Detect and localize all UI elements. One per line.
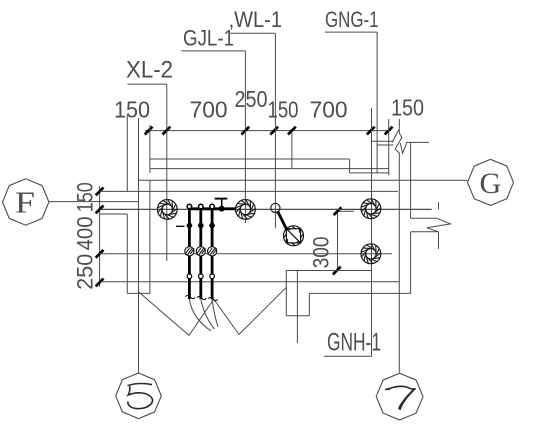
- dim tick h7: [385, 127, 393, 135]
- left wall outer vertical lower: [126, 214, 128, 293]
- right break arrow: [427, 218, 451, 232]
- svg-text:700: 700: [190, 97, 228, 123]
- svg-text:700: 700: [310, 97, 348, 123]
- duct box right vertical: [308, 293, 310, 315]
- junction circle (WL-1): [271, 203, 280, 212]
- tick5 extension: [291, 131, 293, 169]
- svg-text:G: G: [479, 167, 501, 200]
- riser tail 2: [201, 299, 215, 329]
- top-right break vee: [400, 143, 406, 153]
- riser top circle 3: [210, 204, 215, 209]
- riser break squiggle 2: [197, 296, 207, 299]
- leader underline for GNG-1: [325, 31, 377, 33]
- dim tick v1: [96, 188, 104, 196]
- column circle 3: [361, 199, 381, 219]
- top-right wall stub line: [372, 140, 394, 142]
- left wall bottom cap: [127, 292, 150, 294]
- riser small circle 2: [199, 274, 204, 279]
- wall top step vertical: [349, 159, 351, 173]
- left wall inner vertical upper: [149, 125, 151, 173]
- GNH-1 / GNG axis long leader: [371, 108, 373, 356]
- right wall break jog: [395, 133, 402, 153]
- right opening top line: [411, 217, 437, 219]
- right wall inner vertical lower: [410, 232, 412, 294]
- conduit junction dot: [219, 206, 225, 212]
- left wall outer vertical upper: [126, 115, 128, 191]
- left wall connector: [100, 213, 128, 215]
- conduit riser 2: [199, 209, 202, 299]
- left wall inner vertical lower: [149, 181, 151, 294]
- riser break squiggle 1: [185, 295, 195, 298]
- balloon 7: [376, 373, 423, 420]
- horizontal dimension line: [145, 130, 391, 132]
- axis line G: [138, 179, 467, 181]
- riser tick dash: [176, 225, 185, 227]
- leader underline for XL-2: [127, 83, 166, 85]
- wall line top outer: [150, 158, 349, 160]
- dim tick h4: [270, 127, 278, 135]
- leader underline for GJL-1: [181, 50, 245, 52]
- GNG-1 leader drop: [376, 32, 378, 173]
- conduit riser 1: [188, 209, 191, 299]
- riser small circle 3: [210, 274, 215, 279]
- GJL-1 leader drop: [244, 51, 246, 223]
- duct box bottom: [286, 315, 309, 317]
- column circle 2: [236, 200, 256, 220]
- riser top circle 2: [199, 204, 204, 209]
- T-tap cap: [215, 198, 228, 200]
- svg-text:GJL-1: GJL-1: [183, 26, 234, 51]
- riser cap circle 3: [208, 247, 217, 256]
- svg-text:,WL-1: ,WL-1: [229, 7, 282, 32]
- top wall third line right: [350, 172, 389, 174]
- riser top circle 1: [187, 204, 192, 209]
- funnel V1: [139, 292, 214, 335]
- right wall inner vertical upper: [410, 142, 412, 218]
- lamp symbol: [284, 226, 304, 246]
- svg-text:GNH-1: GNH-1: [327, 329, 381, 357]
- svg-text:400: 400: [73, 216, 98, 250]
- right wall outer vertical / balloon7 leader: [398, 153, 400, 373]
- dim tick v2: [96, 206, 104, 214]
- 300 dim extension stub: [338, 210, 355, 212]
- duct box top line: [286, 270, 371, 272]
- riser cap circle 2: [196, 247, 205, 256]
- row line end tick: [438, 202, 440, 209]
- dim tick h6: [367, 127, 375, 135]
- dim tick h5: [288, 127, 296, 135]
- riser small circle 1: [187, 274, 192, 279]
- riser arrow 2: [198, 221, 204, 231]
- svg-text:GNG-1: GNG-1: [325, 7, 379, 32]
- dim tick 300 bottom: [333, 267, 341, 275]
- dim tick v4: [96, 279, 104, 287]
- balloon 5: [116, 373, 162, 419]
- tick7 extension: [388, 119, 390, 175]
- dim tick h1: [145, 127, 153, 135]
- dim tick v3: [96, 250, 104, 258]
- axis line F: [49, 201, 139, 203]
- riser arrow 3: [209, 221, 215, 231]
- dim tick 300 top: [334, 207, 342, 215]
- conduit diagonal to lamp: [278, 211, 287, 230]
- axis balloon G: [468, 159, 514, 205]
- svg-text:300: 300: [309, 236, 334, 268]
- svg-text:150: 150: [391, 95, 424, 121]
- right dangling vertical: [438, 232, 440, 249]
- XL-2 leader drop: [166, 84, 168, 261]
- bottom-right outer line: [309, 292, 410, 294]
- dim tick h3: [241, 127, 249, 135]
- right wall outer vertical upper: [398, 119, 400, 133]
- right opening bottom line: [411, 231, 439, 233]
- top-right inner stub line: [377, 144, 394, 146]
- wall line top inner: [150, 168, 388, 170]
- funnel V2: [214, 287, 286, 334]
- axis row line (row 1 centerline): [100, 208, 432, 210]
- svg-text:150: 150: [268, 97, 299, 123]
- svg-text:250: 250: [73, 254, 98, 290]
- svg-text:F: F: [15, 185, 35, 220]
- left vertical dimension line: [99, 186, 101, 287]
- svg-text:150: 150: [73, 182, 98, 212]
- leader underline for WL-1: [230, 32, 275, 34]
- 300 dimension line: [337, 211, 339, 270]
- conduit riser 3: [211, 209, 214, 300]
- bottom wall inner line: [100, 281, 400, 283]
- construction line y191: [100, 190, 398, 192]
- row 2 centerline: [100, 253, 392, 255]
- column circle 1: [157, 200, 177, 220]
- riser tail 1: [189, 299, 211, 331]
- riser break squiggle 3: [208, 297, 218, 300]
- riser cap circle 1: [185, 247, 194, 256]
- WL-1 leader drop: [274, 33, 276, 228]
- riser arrow 1: [186, 221, 192, 231]
- T-tap stem: [221, 198, 223, 208]
- dim tick h2: [163, 127, 171, 135]
- duct box mid vertical: [296, 271, 298, 344]
- top-right wall stub line 2: [406, 141, 429, 143]
- svg-text:250: 250: [235, 86, 268, 112]
- left wall mid vertical / balloon5 leader: [138, 118, 140, 373]
- conduit main horizontal: [189, 207, 236, 210]
- svg-text:XL-2: XL-2: [126, 57, 173, 84]
- riser tail 3: [212, 300, 218, 327]
- balloon 7 digit: [385, 386, 416, 410]
- duct box left vertical: [285, 271, 287, 316]
- svg-text:150: 150: [114, 97, 150, 123]
- axis balloon F: [3, 179, 49, 225]
- top-right break slash: [392, 130, 399, 143]
- column circle 4: [361, 244, 381, 264]
- leader underline for GNH-1: [324, 355, 372, 357]
- balloon 5 digit: [128, 384, 153, 409]
